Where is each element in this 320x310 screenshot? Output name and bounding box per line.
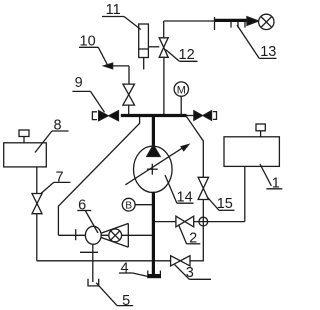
svg-text:15: 15 [217,196,233,212]
svg-text:6: 6 [78,198,86,214]
svg-text:B: B [125,201,132,212]
svg-text:14: 14 [177,189,193,205]
svg-text:7: 7 [55,170,63,186]
svg-text:8: 8 [53,118,61,134]
svg-text:10: 10 [80,34,96,50]
svg-text:11: 11 [106,2,121,18]
svg-text:3: 3 [186,265,194,281]
svg-text:5: 5 [122,293,130,309]
svg-text:13: 13 [260,44,276,60]
svg-text:2: 2 [189,231,197,247]
svg-text:4: 4 [121,260,129,276]
svg-text:1: 1 [272,176,280,192]
svg-text:12: 12 [179,47,195,63]
svg-text:M: M [177,84,186,96]
svg-text:9: 9 [75,75,83,91]
